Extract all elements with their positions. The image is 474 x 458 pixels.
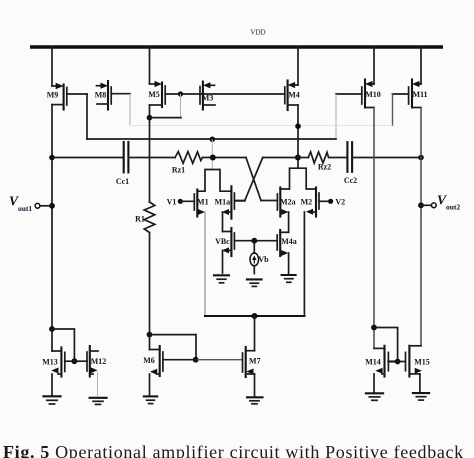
wire: faint tie bus to signal line [211, 139, 213, 169]
ground (M7) [247, 397, 263, 404]
svg-text:Fig. 5 Operational amplifier c: Fig. 5 Operational amplifier circuit wit… [3, 442, 464, 458]
transistor M5 [148, 47, 165, 107]
transistor M11 [393, 47, 428, 126]
transistor M15 [398, 346, 430, 392]
wire: M1 drain loop [197, 170, 231, 192]
transistor M6 [143, 335, 196, 396]
svg-text:Cc2: Cc2 [344, 176, 357, 185]
svg-text:M6: M6 [143, 356, 155, 365]
wire: left column [49, 105, 55, 351]
transistor M2 [301, 188, 331, 317]
transistor M8 [95, 81, 130, 126]
svg-text:M13: M13 [42, 358, 58, 367]
resistor Rz2 [308, 152, 331, 172]
transistor M9 [47, 47, 87, 139]
svg-text:M14: M14 [365, 358, 381, 367]
ground (M4a) [282, 275, 296, 282]
wire: M5 source column [147, 105, 181, 202]
svg-text:VBc: VBc [215, 237, 230, 246]
wire [263, 157, 298, 159]
transistor M4a [277, 230, 297, 274]
svg-text:M15: M15 [414, 358, 430, 367]
port Vout2 [421, 193, 460, 212]
wire: faint M5 gate-source tie [180, 94, 182, 118]
wire [329, 157, 348, 159]
svg-text:Cc1: Cc1 [116, 177, 129, 186]
node: M5 gate tie [178, 91, 183, 96]
transistor M3 [200, 82, 215, 110]
resistor R1 [135, 202, 155, 335]
transistor M14 [365, 346, 397, 393]
wire: M2a drain loop [280, 168, 316, 189]
transistor M7 [243, 347, 261, 396]
svg-text:V1: V1 [167, 197, 177, 206]
wire: M13 gate tie [52, 329, 77, 364]
svg-text:M4a: M4a [281, 237, 297, 246]
ground (M15) [413, 393, 429, 400]
svg-text:M2: M2 [301, 197, 313, 206]
resistor Rz1 [172, 152, 203, 175]
wire: gate line M5-M3-M4 [165, 93, 285, 95]
transistor M10 [336, 47, 381, 139]
svg-text:V2: V2 [335, 198, 345, 207]
capacitor Cc2 [344, 142, 357, 185]
transistor M1a [215, 186, 245, 231]
wire: M6 gate tie [147, 332, 243, 363]
svg-text:M12: M12 [91, 357, 107, 366]
node: bias gate line [251, 238, 257, 244]
wire: M14 gate tie [374, 328, 401, 365]
svg-text:M1a: M1a [215, 198, 231, 207]
svg-text:M3: M3 [202, 93, 214, 102]
svg-text:R1: R1 [135, 215, 145, 224]
ground (M14) [366, 393, 383, 400]
port Vout1 [9, 194, 52, 214]
node [418, 155, 424, 161]
transistor VBc [215, 228, 277, 273]
node: M4 drain on signal line [295, 155, 301, 161]
svg-text:M8: M8 [95, 91, 107, 100]
svg-text:Vb: Vb [258, 255, 269, 264]
capacitor Cc1 [116, 142, 129, 186]
svg-text:M4: M4 [288, 91, 300, 100]
transistor M13 [42, 348, 74, 396]
svg-text:M10: M10 [365, 90, 381, 99]
transistor M4 [285, 47, 300, 168]
svg-text:M5: M5 [148, 90, 160, 99]
wire: bias bus [87, 138, 336, 140]
transistor M2a [277, 188, 295, 233]
wire [203, 157, 247, 159]
wire: faint bias line M8-M11 gates [130, 125, 393, 127]
wire: signal line left [52, 157, 124, 159]
port V2 [328, 198, 345, 207]
ground (VBc) [214, 275, 229, 283]
node at M4 source column [295, 123, 301, 129]
node on bias bus [210, 137, 216, 143]
current source Vb [250, 241, 269, 274]
svg-text:Rz2: Rz2 [318, 163, 331, 172]
wire: right columns [371, 108, 424, 349]
ground (M13) [43, 396, 60, 404]
port V1 [167, 197, 195, 206]
ground (M12) [90, 398, 107, 405]
svg-text:out2: out2 [446, 203, 460, 212]
ground (Vb) [247, 279, 262, 286]
transistor M1 [194, 190, 208, 317]
wire: cross-couple X [234, 158, 277, 201]
svg-text:Rz1: Rz1 [172, 166, 185, 175]
VDD power rail [30, 45, 443, 48]
wire: signal line right [352, 157, 421, 159]
wire: tail bar [205, 313, 304, 351]
ground (M6) [144, 396, 157, 403]
wire [128, 157, 175, 159]
node: signal/bias tie [210, 155, 216, 161]
svg-text:out1: out1 [18, 204, 32, 213]
svg-text:M11: M11 [412, 90, 427, 99]
svg-text:M9: M9 [47, 91, 59, 100]
transistor M12 [74, 346, 106, 397]
svg-text:M1: M1 [197, 197, 209, 206]
svg-text:M7: M7 [249, 356, 261, 365]
svg-text:M2a: M2a [280, 197, 296, 206]
wire [298, 157, 308, 159]
svg-text:VDD: VDD [250, 29, 265, 37]
